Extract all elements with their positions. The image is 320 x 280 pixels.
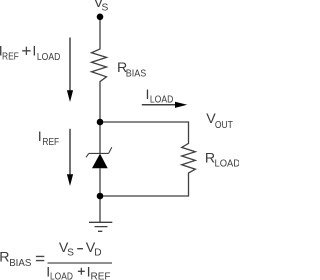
svg-text:OUT: OUT (215, 120, 233, 131)
svg-text:S: S (102, 2, 109, 13)
svg-text:LOAD: LOAD (215, 158, 240, 169)
svg-text:S: S (67, 248, 74, 259)
svg-text:REF: REF (91, 272, 111, 280)
svg-text:I: I (32, 43, 36, 59)
svg-text:LOAD: LOAD (37, 52, 60, 63)
svg-text:D: D (94, 248, 101, 259)
svg-text:REF: REF (2, 52, 19, 63)
svg-text:R: R (0, 250, 9, 266)
svg-text:LOAD: LOAD (150, 95, 173, 106)
svg-text:I: I (146, 87, 150, 103)
svg-text:I: I (38, 129, 42, 145)
svg-text:BIAS: BIAS (126, 68, 147, 79)
svg-text:BIAS: BIAS (9, 258, 31, 269)
svg-text:REF: REF (42, 137, 59, 148)
svg-text:LOAD: LOAD (50, 272, 73, 280)
